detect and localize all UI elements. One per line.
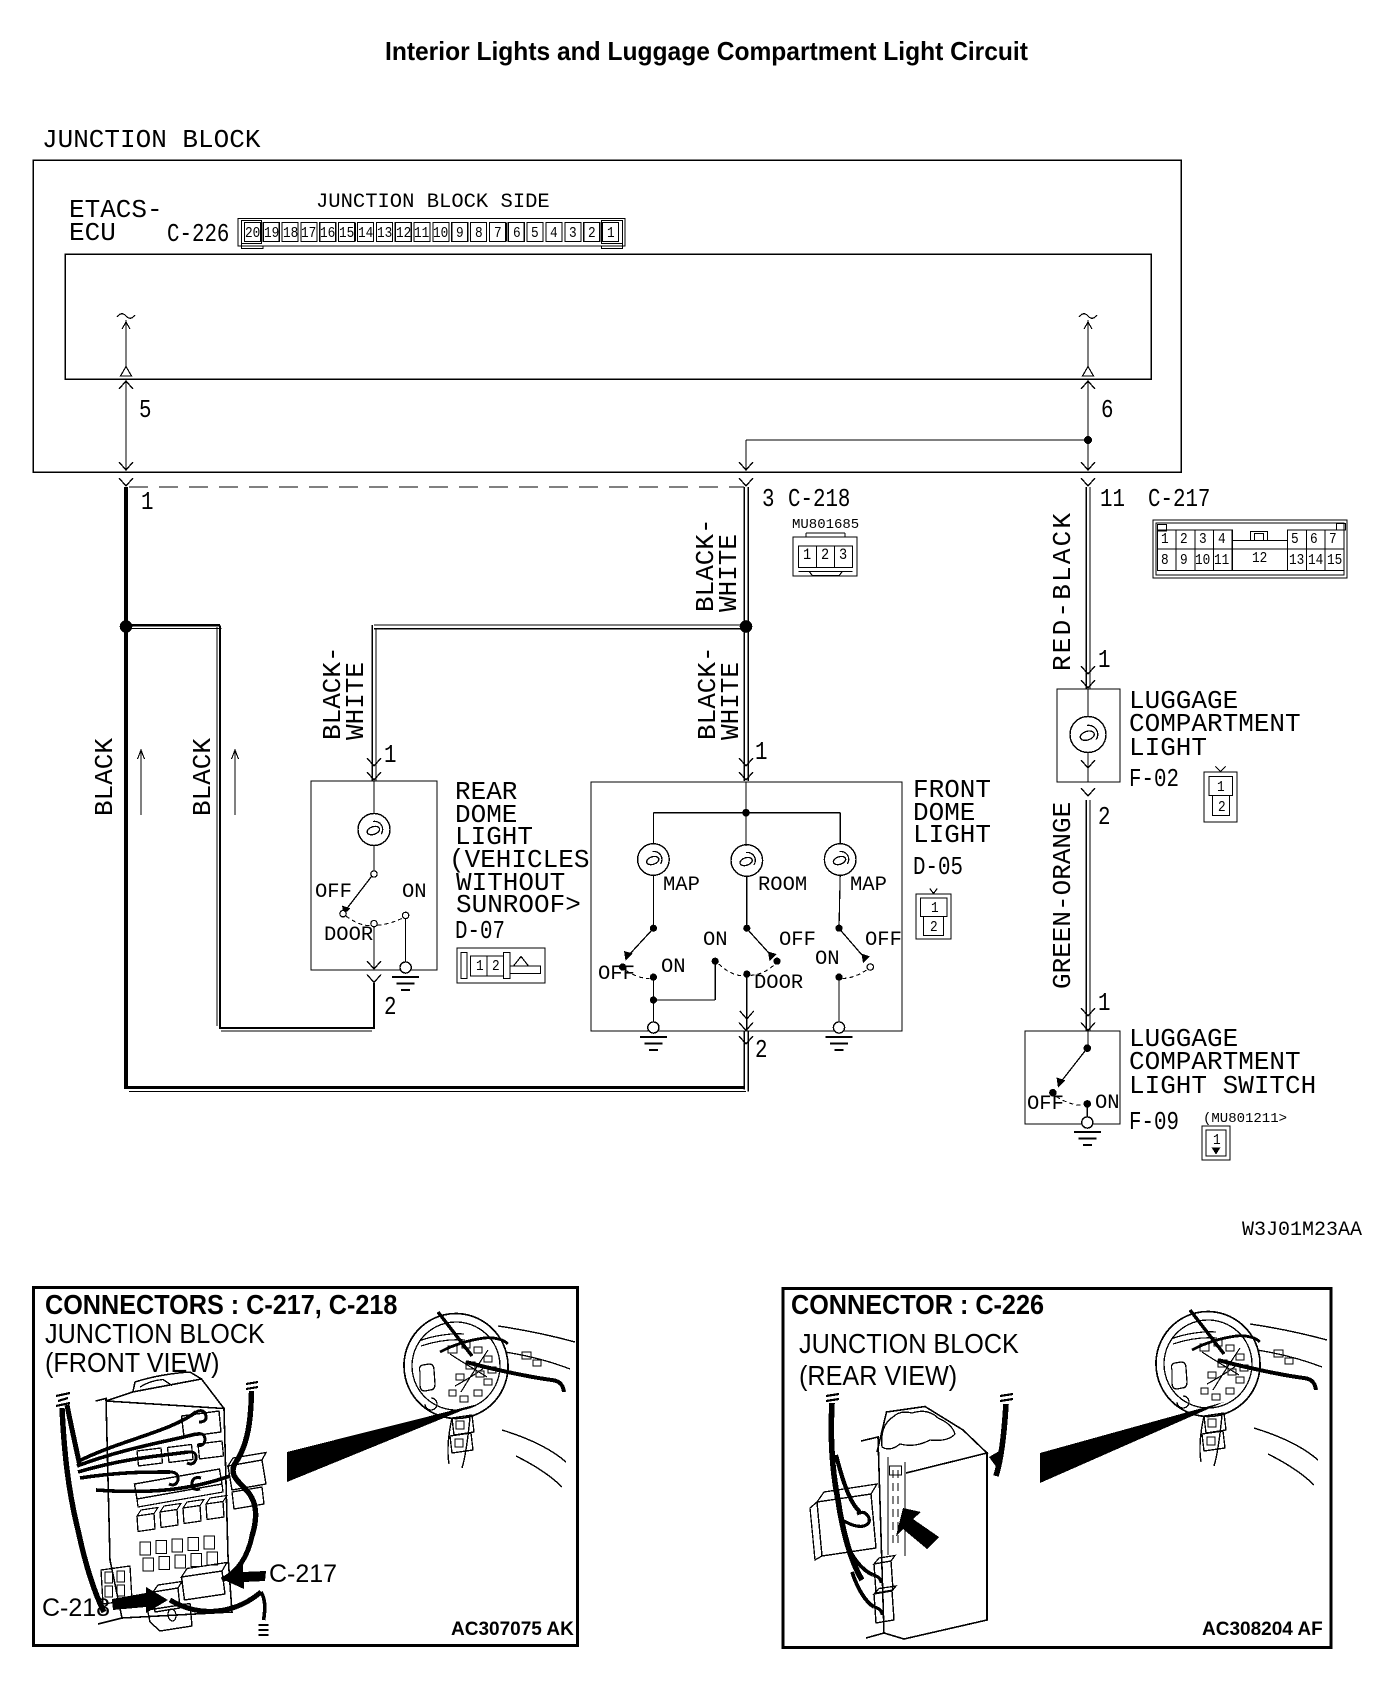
diagram title <box>385 36 1028 67</box>
junction block outer box <box>33 160 1181 472</box>
panel2 left harness wire <box>831 1403 862 1580</box>
luggage switch ground <box>1074 1117 1101 1145</box>
wire node to middle ON contact <box>653 961 715 1000</box>
component designator F-02 <box>1129 768 1179 791</box>
pin number 1 (C-218) <box>141 491 153 514</box>
rear dome wire ON contact to ground <box>405 919 407 962</box>
luggage switch OFF <box>1027 1096 1064 1114</box>
connector arrow rear dome pin 2 lower <box>367 975 381 983</box>
front dome right switch arc <box>843 970 867 979</box>
connector arrow at pin 11 <box>1081 478 1095 486</box>
rear dome switch blade <box>345 877 372 912</box>
wires bulbs to switch contacts <box>653 875 840 928</box>
panel2 steering wheel rim inner <box>1155 1311 1262 1418</box>
panel2 column bundle below <box>1200 1413 1226 1466</box>
wire colour label BLACK-WHITE (front dome feed) <box>697 646 744 740</box>
panel2 harness wire upper <box>1192 1336 1260 1350</box>
panel1 frame <box>34 1288 578 1646</box>
ETACS-ECU internal driver symbol left <box>117 314 135 376</box>
front dome middle switch DOOR <box>754 975 803 993</box>
panel1 junction block top cap <box>106 1379 224 1409</box>
front dome right ON contact <box>835 974 842 981</box>
panel1 small fuse grid <box>140 1536 218 1571</box>
connector designator C-218 <box>788 488 850 511</box>
front dome left switch OFF <box>598 966 635 984</box>
label (VEHICLES <box>449 849 589 872</box>
label FRONT DOME LIGHT <box>913 779 991 847</box>
front dome left ground <box>640 1022 667 1050</box>
panel1 left harness wire 2 <box>67 1405 80 1466</box>
pin number 3 (C-218) <box>762 488 774 511</box>
panel1 harness thick wire right <box>466 1362 564 1392</box>
front dome bulb label MAP left <box>663 877 700 895</box>
luggage switch feed wire <box>1087 1031 1089 1048</box>
wire right ON to ground <box>838 981 840 1022</box>
panel2 column stalk thick <box>1190 1310 1224 1354</box>
panel1 label JUNCTION BLOCK <box>45 1318 265 1349</box>
panel1 C-217 callout arrow <box>224 1565 266 1589</box>
panel2 pointer arrow <box>896 1508 939 1549</box>
junction dot BLACK-WHITE wire <box>740 620 753 633</box>
front dome bus junction dot <box>742 809 750 817</box>
luggage switch ON <box>1095 1095 1120 1113</box>
rear dome internal wire top <box>373 781 375 814</box>
panel2 junction block top face <box>877 1407 987 1474</box>
rear dome light D-07 box <box>311 781 437 970</box>
panel2 right harness wire <box>996 1404 1006 1476</box>
wire pin 5 (ECU to junction block edge) <box>119 379 133 471</box>
drawing code W3J01M23AA <box>1242 1221 1362 1241</box>
rear dome bulb <box>358 814 390 846</box>
wire DOOR contact to pin 2 <box>746 978 748 1031</box>
connector arrow front dome pin 1 lower <box>739 772 753 780</box>
panel2 top foam blob <box>882 1411 955 1449</box>
wire left ON to node <box>652 981 654 1000</box>
panel1 connector callout C-217 <box>269 1560 337 1588</box>
front dome left switch arc <box>626 971 650 979</box>
panel1 wire swoop 4 <box>80 1472 170 1478</box>
panel2 right frayed top <box>1000 1394 1013 1401</box>
label REAR DOME LIGHT <box>455 781 533 849</box>
panel2 wire hook connector2 <box>874 1607 882 1615</box>
front dome right OFF contact <box>867 964 873 970</box>
panel1 wire through slab <box>96 1476 230 1491</box>
inner arrow front dome pin 2 <box>740 1011 754 1019</box>
pin number 5 <box>139 399 151 422</box>
connector arrow luggage light pin 1 upper <box>1081 666 1095 674</box>
panel2 wire to small connector 2 <box>852 1572 874 1607</box>
panel1 wire swoop 2 hook <box>196 1434 205 1446</box>
panel1 wheel spoke lines <box>419 1334 465 1346</box>
front dome middle switch blade <box>749 931 773 957</box>
panel2 junction block front face <box>884 1453 987 1639</box>
luggage light bulb <box>1070 717 1106 753</box>
rear dome pin 2 <box>384 996 396 1019</box>
C-218 icon pin 3 <box>839 547 847 563</box>
panel1 heading CONNECTORS C-217 C-218 <box>45 1289 397 1320</box>
panel2 connector channel <box>888 1457 905 1556</box>
connector arrow luggage switch pin 1 lower <box>1081 1023 1095 1031</box>
panel1 right side bracket <box>232 1487 264 1509</box>
panel1 wheel lower curl <box>425 1398 437 1410</box>
part number (MU801211) <box>1203 1112 1287 1126</box>
connector arrow at pin 3 <box>739 478 753 486</box>
front dome left switch common <box>650 925 657 932</box>
panel1 wire swoop 1 hook <box>196 1411 206 1422</box>
panel2 wedge callout <box>1040 1402 1224 1483</box>
wire colour label BLACK-WHITE (rear dome feed) <box>322 646 369 740</box>
panel1 label FRONT VIEW <box>45 1347 220 1378</box>
junction node on pin 6 wire <box>1084 436 1092 444</box>
C-217 icon pin 12 <box>1252 551 1267 566</box>
panel1 long fuse slab <box>135 1469 223 1499</box>
front dome left OFF contact <box>619 963 626 970</box>
rear dome wire bulb to switch common <box>373 846 375 875</box>
wire BLACK-WHITE pin3 down to front dome pin 1 <box>744 487 748 781</box>
pin number 11 (C-217) <box>1100 488 1125 511</box>
D-07 icon pin 2 <box>492 959 500 974</box>
wire ON contact to ground <box>1086 1108 1088 1117</box>
wire colour label BLACK-WHITE (pin3 upper) <box>695 518 742 612</box>
panel1 junction block front face <box>106 1401 232 1618</box>
front dome node below left switch <box>650 996 657 1003</box>
connector icon C-218 (MU801685) <box>793 533 857 576</box>
front dome middle switch common <box>743 925 750 932</box>
panel2 steering wheel rim <box>1145 1300 1271 1427</box>
connector arrow at pin 1 <box>119 478 133 486</box>
luggage switch blade arrowhead <box>1057 1078 1066 1088</box>
connector arrow front dome pin 2 upper <box>739 1023 753 1031</box>
front dome middle arc ON-DOOR <box>719 964 743 976</box>
luggage compartment light F-02 box <box>1057 689 1120 782</box>
panel1 left tiny connector grid <box>101 1566 132 1604</box>
panel1 junction block back slab <box>96 1399 122 1625</box>
front dome pin 1 <box>755 741 767 764</box>
panel2 dash outline lower <box>1254 1428 1318 1485</box>
rear dome switch label DOOR <box>324 927 373 945</box>
connector arrow rear dome pin 1 lower <box>367 772 381 780</box>
label LUGGAGE COMPARTMENT LIGHT <box>1129 690 1301 760</box>
label LUGGAGE COMPARTMENT LIGHT SWITCH <box>1129 1028 1316 1098</box>
panel1 column stalk thick <box>438 1312 472 1356</box>
rear dome DOOR contact <box>371 920 377 926</box>
panel1 slab lower edge <box>137 1484 223 1507</box>
front dome MAP bulb left <box>638 844 670 876</box>
panel1 bottom wire tail <box>261 1592 265 1620</box>
dashed connector interface line C-218 <box>129 486 744 488</box>
C-218 icon pin 2 <box>821 547 829 563</box>
right switch blade arrowhead <box>862 954 871 964</box>
panel2 big side connector box <box>810 1484 877 1560</box>
F-09 icon pin 1 <box>1213 1133 1221 1148</box>
connector C-226 pin numbers 20..1 <box>245 226 260 241</box>
rear dome pin 1 <box>384 744 396 767</box>
D-05 icon pin 2 <box>930 920 938 935</box>
front dome middle switch ON <box>703 932 728 950</box>
panel1 dash outline upper <box>498 1326 575 1342</box>
panel1 top hump inner line <box>140 1380 172 1388</box>
panel1 dash outline lower <box>502 1430 566 1487</box>
front dome right ground <box>826 1022 853 1050</box>
panel1 right lower curve <box>222 1536 252 1580</box>
ETACS-ECU internal driver symbol right <box>1079 314 1097 376</box>
rear dome switch arc DOOR-ON <box>377 918 403 926</box>
panel1 dash outline mid <box>505 1352 570 1369</box>
connector designator C-217 <box>1148 488 1210 511</box>
wire colour label RED-BLACK <box>1052 511 1075 671</box>
wire colour label BLACK (pin1 wire) <box>94 738 117 816</box>
panel1 right harness frayed top <box>246 1382 258 1389</box>
front dome middle ON contact <box>712 958 719 965</box>
rear dome switch label OFF <box>315 884 352 902</box>
connector C-217 icon pin numbers row 1 <box>1161 532 1169 547</box>
panel2 wheel lower curl <box>1177 1396 1189 1408</box>
label JUNCTION BLOCK <box>42 129 260 152</box>
luggage switch OFF contact <box>1049 1089 1057 1097</box>
wire link pin6 node to pin3 <box>739 440 1088 471</box>
connector arrow luggage light pin 1 lower <box>1081 680 1095 688</box>
panel1 steering wheel rim inner <box>403 1313 510 1420</box>
panel2 dash outline upper <box>1250 1324 1327 1340</box>
inner arrow luggage light pin 2 <box>1081 760 1095 768</box>
wire BLACK branch to rear dome pin 2 <box>126 625 374 1031</box>
panel1 figure code AC307075AK <box>451 1619 574 1640</box>
front dome bulb label MAP right <box>850 877 887 895</box>
connector arrow luggage switch pin 1 upper <box>1081 1008 1095 1016</box>
panel2 wheel spoke lines <box>1171 1332 1217 1344</box>
connector arrow front dome pin 2 lower <box>739 1036 753 1044</box>
panel1 wire swoop 4 hook <box>169 1472 178 1485</box>
panel2 harness thick wire right <box>1218 1360 1316 1390</box>
C-218 icon pin 1 <box>803 547 811 563</box>
D-07 icon pin 1 <box>476 959 484 974</box>
panel1 right side relay box <box>228 1460 266 1490</box>
F-02 icon pin 1 <box>1217 780 1225 795</box>
panel1 left harness frayed top <box>56 1393 70 1406</box>
component designator D-05 <box>913 856 963 879</box>
rear dome switch label ON <box>402 884 427 902</box>
luggage switch blade <box>1060 1051 1085 1083</box>
panel2 wire to small connector 1 <box>845 1540 873 1575</box>
rear dome switch arc OFF-DOOR <box>346 916 371 926</box>
front dome right switch blade <box>841 931 865 959</box>
label JUNCTION BLOCK SIDE <box>316 194 550 212</box>
panel1 relay box top <box>228 1453 266 1467</box>
panel1 wire swoop 3 <box>78 1452 188 1472</box>
front dome middle arc DOOR-OFF <box>750 965 774 976</box>
panel2 junction block back slab <box>861 1437 884 1638</box>
connector arrow front dome pin 1 upper <box>739 758 753 766</box>
connector arrow luggage light pin 2 below box <box>1081 788 1095 796</box>
rear dome ON contact <box>402 912 408 918</box>
front dome right switch ON <box>815 951 840 969</box>
panel2 heading CONNECTOR C-226 <box>791 1289 1044 1320</box>
panel1 cluster doodles <box>448 1342 541 1402</box>
panel1 C-217 target connector 3d box <box>182 1563 228 1601</box>
panel1 column bundle below <box>448 1415 474 1468</box>
panel1 wire slab hook <box>192 1478 201 1490</box>
current direction arrow branch BLACK <box>232 750 239 815</box>
wire RED-BLACK pin11 to luggage light <box>1086 487 1090 689</box>
ETACS-ECU inner box <box>65 254 1151 379</box>
panel2 left frayed top <box>826 1394 839 1401</box>
panel2 small connector 2 <box>874 1586 896 1623</box>
connector C-226 pin strip <box>238 219 625 249</box>
luggage switch arc <box>1057 1097 1084 1106</box>
front dome light D-05 box <box>591 782 902 1031</box>
rear dome ground <box>392 962 419 990</box>
connector arrow rear dome pin 1 upper <box>367 758 381 766</box>
panel1 wire swoop 3 hook <box>187 1452 196 1464</box>
panel2 frame <box>783 1289 1331 1648</box>
wire GREEN-ORANGE luggage light to switch <box>1086 800 1090 1031</box>
panel1 bottom foot trapezoid <box>148 1604 193 1632</box>
component designator F-09 <box>1129 1111 1179 1134</box>
front dome left ON contact <box>650 974 657 981</box>
rear dome switch common contact <box>371 871 377 877</box>
connector arrow rear dome pin 2 upper <box>367 961 381 969</box>
pin number 6 <box>1101 399 1113 422</box>
front dome feed wire and bus <box>653 782 840 846</box>
panel1 wheel pad <box>419 1364 435 1391</box>
panel1 cluster inner wires <box>450 1350 488 1392</box>
panel2 small connector 1 <box>874 1556 895 1594</box>
middle switch blade arrowhead <box>768 952 777 962</box>
panel1 top fuse box <box>182 1411 222 1437</box>
panel2 wire hook connector1 <box>873 1575 881 1583</box>
panel1 connector callout C-218 <box>42 1594 110 1622</box>
wire colour label BLACK (branch wire) <box>192 738 215 816</box>
panel2 curl wire in big box <box>842 1512 869 1526</box>
panel2 cluster doodles <box>1200 1340 1293 1400</box>
front dome middle OFF contact <box>773 958 780 965</box>
panel2 label JUNCTION BLOCK <box>799 1328 1019 1359</box>
D-05 icon pin 1 <box>931 901 939 916</box>
panel1 fuse row middle <box>137 1441 224 1466</box>
front dome left switch ON <box>661 959 686 977</box>
front dome left switch blade <box>628 931 652 957</box>
wire node down to ground <box>652 1004 654 1022</box>
panel1 bottom wire frayed end <box>259 1625 269 1635</box>
front dome middle switch OFF <box>779 932 816 950</box>
panel2 label REAR VIEW <box>799 1360 957 1391</box>
rear dome wire DOOR contact to pin 2 <box>373 927 375 969</box>
luggage light pin 1 <box>1098 649 1110 672</box>
rear dome switch blade arrowhead <box>342 906 351 915</box>
front dome pin 2 <box>755 1039 767 1062</box>
wire BLACK pin1 down-right to front dome pin 2 <box>126 487 746 1092</box>
panel1 wire swoop 2 <box>77 1434 196 1466</box>
panel1 harness wire upper <box>440 1338 508 1352</box>
component designator D-07 <box>455 920 505 943</box>
connector icon D-07 <box>457 948 545 983</box>
luggage compartment light switch F-09 box <box>1025 1031 1120 1124</box>
panel1 right harness wire <box>233 1391 256 1536</box>
label WITHOUT SUNROOF) <box>456 872 581 917</box>
panel2 left harness branch to curl <box>836 1455 860 1512</box>
connector icon F-02 <box>1204 767 1237 823</box>
luggage switch pin 1 <box>1098 992 1110 1015</box>
front dome ROOM bulb <box>731 845 763 877</box>
panel1 steering wheel rim <box>393 1302 519 1429</box>
panel1 C-218 target connector 3d box <box>153 1582 182 1613</box>
panel1 wedge callout <box>287 1404 478 1482</box>
luggage switch ON contact <box>1084 1100 1092 1108</box>
connector designator C-226 <box>167 223 229 246</box>
left switch blade arrowhead <box>624 951 633 961</box>
wire BLACK-WHITE branch to rear dome pin 1 <box>372 625 746 781</box>
connector icon C-217 <box>1153 520 1347 578</box>
front dome bulb label ROOM <box>758 877 807 895</box>
connector C-217 icon pin numbers row 2 <box>1161 553 1169 568</box>
front dome right switch OFF <box>865 932 902 950</box>
panel1 C-218 callout arrow <box>112 1587 168 1613</box>
rear dome OFF contact <box>340 911 346 917</box>
luggage switch common contact <box>1084 1044 1092 1052</box>
panel2 dash outline mid <box>1257 1350 1322 1367</box>
junction dot BLACK wire <box>120 620 133 633</box>
current direction arrow left BLACK <box>138 750 145 815</box>
panel1 wire swoop 1 <box>77 1412 196 1462</box>
wire front dome pin 2 vertical <box>744 1031 748 1092</box>
luggage light internal wire <box>1087 689 1089 782</box>
wire colour label GREEN-ORANGE <box>1052 802 1075 989</box>
panel2 cluster inner wires <box>1202 1348 1240 1390</box>
panel2 figure code AC308204AF <box>1202 1619 1323 1640</box>
panel1 foot oval hole <box>167 1609 177 1622</box>
panel1 left harness wire <box>62 1408 104 1612</box>
F-02 icon pin 2 <box>1218 800 1226 815</box>
panel1 cube fuses row <box>137 1496 227 1532</box>
panel1 junction block top hump <box>133 1372 202 1392</box>
front dome DOOR contact <box>743 971 750 978</box>
connector icon F-09 <box>1202 1126 1230 1160</box>
luggage light pin 2 <box>1098 806 1110 829</box>
panel2 wheel pad <box>1171 1362 1187 1389</box>
panel1 bottom swoop wire <box>170 1592 261 1611</box>
part number MU801685 <box>792 518 859 532</box>
connector icon D-05 <box>916 889 951 940</box>
front dome right switch common <box>835 925 842 932</box>
panel2 right harness arrowhead <box>989 1450 1001 1468</box>
label ETACS-ECU <box>69 199 163 245</box>
wire pin 6 (ECU to junction block edge) <box>1081 379 1095 471</box>
front dome MAP bulb right <box>824 844 856 876</box>
